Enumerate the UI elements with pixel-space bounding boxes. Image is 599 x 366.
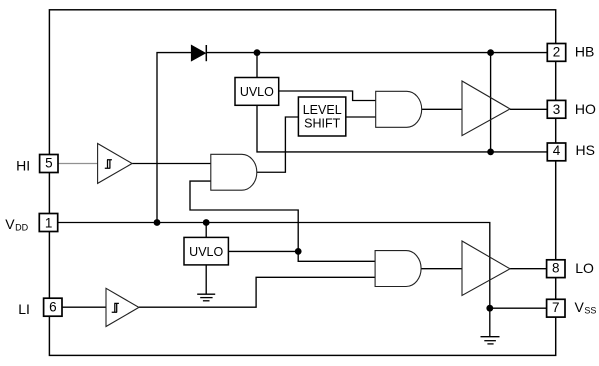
svg-text:4: 4 <box>553 143 561 158</box>
svg-text:LEVEL: LEVEL <box>303 103 342 117</box>
svg-text:V: V <box>575 299 585 315</box>
svg-text:SS: SS <box>584 306 596 316</box>
svg-text:DD: DD <box>15 223 28 233</box>
svg-text:HS: HS <box>576 142 595 158</box>
svg-text:5: 5 <box>45 156 53 171</box>
svg-text:SHIFT: SHIFT <box>304 117 340 131</box>
svg-text:6: 6 <box>49 300 57 315</box>
svg-text:HI: HI <box>16 158 30 174</box>
svg-text:2: 2 <box>553 45 561 60</box>
svg-text:8: 8 <box>552 260 560 275</box>
svg-text:7: 7 <box>552 300 560 315</box>
svg-text:V: V <box>5 216 15 232</box>
svg-text:1: 1 <box>45 215 53 230</box>
svg-text:LO: LO <box>575 260 594 276</box>
svg-text:HB: HB <box>575 44 594 60</box>
svg-text:3: 3 <box>553 102 561 117</box>
svg-text:LI: LI <box>18 301 30 317</box>
svg-text:UVLO: UVLO <box>240 85 274 99</box>
svg-text:UVLO: UVLO <box>189 245 223 259</box>
svg-text:HO: HO <box>575 101 596 117</box>
